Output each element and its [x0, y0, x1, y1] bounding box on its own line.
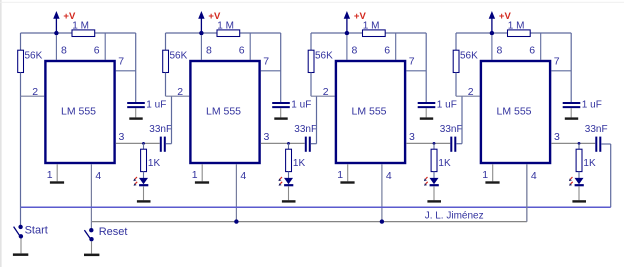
reset rail net (Reset to all pin4) [91, 221, 527, 223]
ground under Reset switch [84, 254, 99, 257]
capacitor 1uF (stage 2) [272, 103, 290, 107]
svg-text:4: 4 [240, 170, 246, 182]
wire 1K to LED (stage 2) [288, 172, 290, 179]
svg-text:8: 8 [497, 45, 503, 57]
stage 1 top +V rail wire [21, 32, 136, 34]
wire 1uF to ground (stage 3) [425, 108, 427, 117]
wire stage4 pin4 corner on reset rail [526, 164, 528, 221]
wire LED cathode to ground (stage 4) [578, 186, 580, 200]
wire rail corner down to 1uF (stage 1) [135, 33, 137, 102]
svg-text:2: 2 [468, 86, 474, 98]
resistor 1M (stage 1) [72, 30, 95, 37]
svg-text:3: 3 [554, 131, 560, 143]
wire pin6 to rail (stage 2) [249, 33, 251, 60]
svg-text:8: 8 [352, 45, 358, 57]
wire Start switch to ground [20, 239, 22, 254]
resistor 56K (stage 3) [308, 50, 314, 72]
resistor 56K (stage 1) [18, 50, 24, 72]
wire 56K bottom to pin2 line (stage 4) [455, 73, 457, 97]
wire pin3 node to 1K (stage 4) [578, 143, 580, 149]
wire 1uF to ground (stage 2) [280, 108, 282, 117]
wire pin6 to rail (stage 1) [104, 33, 106, 60]
svg-text:1: 1 [47, 169, 53, 181]
svg-text:6: 6 [239, 45, 245, 57]
svg-text:7: 7 [409, 55, 415, 67]
svg-text:33nF: 33nF [149, 124, 172, 135]
svg-text:6: 6 [384, 45, 390, 57]
LED light arrows (stage 1) [133, 177, 137, 186]
svg-text:6: 6 [529, 45, 535, 57]
svg-text:8: 8 [61, 45, 67, 57]
LED D4 anode triangle and cathode bar [575, 178, 584, 185]
svg-text:Start: Start [25, 224, 48, 236]
op IC LM555 U3 [336, 61, 405, 163]
ground under pin1 (stage 1) [50, 181, 64, 183]
switch Reset (push-button) [84, 228, 93, 241]
wire 1uF to ground (stage 4) [570, 108, 572, 117]
svg-text:LM 555: LM 555 [61, 106, 96, 118]
svg-text:2: 2 [323, 86, 329, 98]
wire rail corner down to 1uF (stage 4) [570, 33, 572, 102]
svg-text:Reset: Reset [99, 226, 128, 238]
svg-text:1K: 1K [148, 158, 161, 169]
svg-text:J. L. Jiménez: J. L. Jiménez [425, 210, 484, 221]
resistor 1K (stage 4) [576, 149, 582, 171]
wire stage1 trigger node down to Start rail [20, 96, 22, 207]
ground under 1uF (stage 3) [420, 117, 433, 119]
wire 1K to LED (stage 3) [433, 172, 435, 179]
svg-text:1: 1 [482, 169, 488, 181]
wire 33nF output to stage 2 trigger [166, 96, 172, 144]
LED D2 anode triangle and cathode bar [284, 178, 293, 185]
LED D1 anode triangle and cathode bar [139, 178, 148, 185]
wire pin4 reset line (stage 2) [235, 164, 237, 221]
page left border strip [0, 0, 2, 267]
wire 1K to LED (stage 1) [143, 172, 145, 179]
capacitor 33nF (stage 1) [161, 137, 165, 152]
svg-text:3: 3 [264, 131, 270, 143]
stage 3 top +V rail wire [311, 32, 426, 34]
svg-text:2: 2 [177, 86, 183, 98]
capacitor 1uF (stage 4) [563, 103, 581, 107]
svg-text:1: 1 [192, 169, 198, 181]
resistor 1K (stage 1) [141, 149, 147, 171]
ground under LED (stage 2) [282, 200, 296, 202]
svg-text:1 M: 1 M [72, 21, 89, 32]
resistor 1K (stage 3) [431, 149, 437, 171]
svg-text:3: 3 [409, 131, 415, 143]
svg-text:8: 8 [206, 45, 212, 57]
junction dot on pin3 node (stage 3) [433, 142, 436, 145]
junction dot +V node (stage 2) [199, 31, 203, 35]
wire pin2 stub (stage 1) [21, 95, 45, 97]
wire pin3 output stub (stage 3) [406, 142, 450, 144]
ground under pin1 (stage 4) [485, 181, 499, 183]
wire rail corner down to 1uF (stage 3) [425, 33, 427, 102]
junction dot reset rail stage2 [234, 219, 238, 223]
wire 1K to LED (stage 4) [578, 172, 580, 179]
svg-text:LM 555: LM 555 [206, 106, 241, 118]
svg-text:33nF: 33nF [440, 124, 463, 135]
wire pin6 to rail (stage 4) [540, 33, 542, 60]
power symbol +V (stage 1) [53, 11, 59, 31]
svg-text:56K: 56K [170, 50, 188, 61]
wire pin3 output stub (stage 2) [261, 142, 305, 144]
wire pin7 stub (stage 1) [116, 70, 136, 72]
svg-text:33nF: 33nF [294, 124, 317, 135]
ground under LED (stage 1) [137, 200, 151, 202]
stage 4 top +V rail wire [456, 32, 571, 34]
capacitor 33nF (stage 3) [451, 137, 455, 152]
ground under LED (stage 4) [572, 200, 586, 202]
svg-text:LM 555: LM 555 [351, 106, 386, 118]
svg-text:3: 3 [119, 131, 125, 143]
op IC LM555 U1 [45, 61, 114, 163]
svg-text:1 uF: 1 uF [437, 99, 457, 110]
junction dot +V node (stage 1) [54, 31, 58, 35]
junction dot +V node (stage 3) [345, 31, 349, 35]
svg-text:1K: 1K [438, 158, 451, 169]
wire pin7 stub (stage 2) [261, 70, 281, 72]
page top border line [0, 2, 624, 3]
LED D3 anode triangle and cathode bar [430, 178, 439, 185]
wire LED cathode to ground (stage 1) [143, 186, 145, 200]
junction dot on pin3 node (stage 4) [578, 142, 581, 145]
wire pin3 output stub (stage 4) [551, 142, 595, 144]
wire 1uF to ground (stage 1) [135, 108, 137, 117]
wire pin7 stub (stage 4) [551, 70, 571, 72]
wire 33nF output to stage 3 trigger [311, 96, 317, 144]
wire pin4 reset line (stage 4) [526, 164, 528, 221]
LED light arrows (stage 4) [569, 177, 573, 186]
svg-text:7: 7 [118, 55, 124, 67]
wire reset rail down to Reset switch [90, 222, 92, 229]
capacitor 1uF (stage 1) [127, 103, 145, 107]
wire Start rail down to switch [20, 207, 22, 225]
wire 56K bottom to pin2 line (stage 1) [20, 73, 22, 97]
wire 56K branch / left vertical top (stage 3) [310, 33, 312, 50]
wire pin3 node to 1K (stage 1) [143, 143, 145, 149]
wire 56K branch / left vertical top (stage 1) [20, 33, 22, 50]
svg-text:7: 7 [263, 55, 269, 67]
svg-text:LM 555: LM 555 [496, 106, 531, 118]
wire pin3 output stub (stage 1) [116, 142, 160, 144]
wire 56K branch / left vertical top (stage 4) [455, 33, 457, 50]
svg-text:2: 2 [32, 86, 38, 98]
op IC LM555 U4 [481, 61, 550, 163]
wire LED cathode to ground (stage 2) [288, 186, 290, 200]
capacitor 33nF (stage 4) [596, 137, 600, 152]
wire pin8 to rail (stage 4) [491, 35, 493, 60]
op IC LM555 U2 [190, 61, 259, 163]
junction dot on pin3 node (stage 2) [287, 142, 290, 145]
svg-text:56K: 56K [460, 50, 478, 61]
resistor 1M (stage 2) [217, 30, 240, 37]
wire stage4 33nF output down to feedback rail [601, 144, 610, 207]
svg-text:1 M: 1 M [363, 21, 380, 32]
svg-text:1 M: 1 M [217, 21, 234, 32]
wire pin2 stub (stage 3) [311, 95, 335, 97]
resistor 56K (stage 4) [453, 50, 459, 72]
power symbol +V (stage 2) [198, 11, 204, 31]
resistor 1K (stage 2) [286, 149, 292, 171]
wire 33nF output to stage 4 trigger [456, 96, 462, 144]
wire pin8 to rail (stage 2) [200, 35, 202, 60]
wire pin8 to rail (stage 3) [346, 35, 348, 60]
ground under 1uF (stage 4) [565, 117, 578, 119]
svg-text:1: 1 [337, 169, 343, 181]
capacitor 33nF (stage 2) [306, 137, 310, 152]
wire pin3 node to 1K (stage 2) [288, 143, 290, 149]
svg-text:56K: 56K [315, 50, 333, 61]
wire 56K branch / left vertical top (stage 2) [165, 33, 167, 50]
wire pin4 reset line (stage 1) [90, 164, 92, 221]
wire pin3 node to 1K (stage 3) [433, 143, 435, 149]
wire pin1 to ground (stage 4) [492, 164, 494, 181]
power symbol +V (stage 3) [344, 11, 350, 31]
ground under LED (stage 3) [427, 200, 441, 202]
svg-text:1 uF: 1 uF [291, 99, 311, 110]
junction dot on pin3 node (stage 1) [142, 142, 145, 145]
power symbol +V (stage 4) [489, 11, 495, 31]
wire pin1 to ground (stage 1) [56, 164, 58, 181]
wire Reset switch to ground [91, 241, 93, 253]
svg-text:1K: 1K [293, 158, 306, 169]
wire pin4 reset line (stage 3) [381, 164, 383, 221]
wire pin7 stub (stage 3) [406, 70, 426, 72]
svg-text:7: 7 [554, 55, 560, 67]
ground under Start switch [13, 253, 28, 256]
svg-text:4: 4 [95, 170, 101, 182]
ground under pin1 (stage 2) [195, 181, 209, 183]
resistor 1M (stage 3) [363, 30, 386, 37]
svg-text:1 M: 1 M [508, 21, 525, 32]
ground under pin1 (stage 3) [340, 181, 354, 183]
junction dot reset rail stage3 [380, 219, 384, 223]
wire rail corner down to 1uF (stage 2) [280, 33, 282, 102]
svg-text:1K: 1K [583, 158, 596, 169]
junction dot +V node (stage 4) [490, 31, 494, 35]
resistor 1M (stage 4) [508, 30, 531, 37]
wire pin2 stub (stage 4) [456, 95, 480, 97]
switch Start (push-button) [14, 225, 23, 239]
LED light arrows (stage 2) [278, 177, 282, 186]
svg-text:33nF: 33nF [585, 124, 608, 135]
resistor 56K (stage 2) [163, 50, 169, 72]
wire pin1 to ground (stage 3) [347, 164, 349, 181]
ground under 1uF (stage 2) [274, 117, 287, 119]
LED light arrows (stage 3) [424, 177, 428, 186]
wire pin6 to rail (stage 3) [395, 33, 397, 60]
wire pin8 to rail (stage 1) [55, 35, 57, 60]
wire LED cathode to ground (stage 3) [433, 186, 435, 200]
ground under 1uF (stage 1) [129, 117, 142, 119]
wire pin2 stub (stage 2) [166, 95, 190, 97]
svg-text:6: 6 [94, 45, 100, 57]
feedback rail net (Start to stage4 output) [21, 206, 611, 208]
svg-text:56K: 56K [25, 50, 43, 61]
wire pin1 to ground (stage 2) [201, 164, 203, 181]
svg-text:1 uF: 1 uF [146, 99, 166, 110]
capacitor 1uF (stage 3) [418, 103, 436, 107]
svg-text:4: 4 [531, 170, 537, 182]
svg-text:4: 4 [386, 170, 392, 182]
svg-text:1 uF: 1 uF [582, 99, 602, 110]
stage 2 top +V rail wire [166, 32, 281, 34]
wire 56K bottom to pin2 line (stage 2) [165, 73, 167, 97]
wire 56K bottom to pin2 line (stage 3) [310, 73, 312, 97]
